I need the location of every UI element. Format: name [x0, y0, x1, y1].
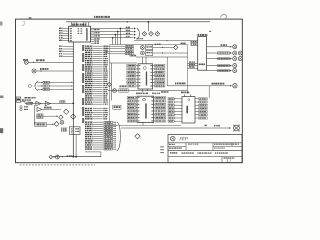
input connector pin K2 — [32, 68, 73, 73]
tick above U4 — [209, 31, 211, 32]
IC U1 right pin rows — [91, 29, 100, 44]
gate A2 — [45, 101, 50, 106]
IC U4 part number text — [199, 64, 205, 66]
optocoupler circle 1 — [141, 46, 145, 50]
diamond node D3 — [59, 115, 63, 119]
IC U2 top pins — [143, 57, 147, 64]
signal box row 4 — [35, 122, 54, 126]
diamond X2 — [149, 32, 154, 37]
input terminal box — [16, 97, 35, 104]
IC U3 right pin labels — [154, 97, 166, 123]
diamond before brace — [28, 84, 32, 88]
IC U2 right pin labels — [153, 64, 165, 87]
IC U3 body — [137, 96, 154, 122]
label box TR — [60, 101, 65, 104]
circle node bottom left — [60, 120, 64, 124]
IC U2 bottom pins — [143, 89, 148, 92]
connector P1 middle rows — [85, 108, 108, 120]
wire column bottom drop — [85, 151, 101, 153]
diamond X3 — [155, 32, 160, 37]
IC U1 top pins — [72, 22, 89, 27]
spare gate circles — [20, 106, 28, 111]
net label 17 4C 17 — [175, 83, 224, 85]
IC U2 body — [138, 64, 153, 89]
label above first bus wire — [126, 27, 130, 28]
wire net row with connector symbol — [108, 89, 188, 93]
diamond node D2 — [71, 114, 76, 119]
net label 2C2 — [120, 85, 127, 87]
optocoupler box 1 — [146, 45, 153, 50]
node gate row joins bus — [72, 103, 74, 105]
svg-text:1 /: 1 / — [226, 158, 232, 163]
optocoupler box 2 — [146, 51, 153, 56]
resistor array RN1 — [38, 81, 73, 90]
IC U4 lower left pins — [188, 62, 198, 69]
connector J2 right pin labels — [195, 98, 207, 119]
label CT8 — [181, 43, 186, 45]
IC U4 label above — [198, 34, 208, 36]
sheet border frame — [16, 19, 243, 163]
label box on inner vertical — [113, 105, 121, 109]
measuring point symbol — [233, 125, 240, 132]
wire rail to U2 — [136, 56, 188, 58]
input connector pin K1 — [23, 59, 73, 64]
IC U2 left pin labels — [127, 64, 138, 87]
brace after bus wires — [137, 28, 140, 40]
IC U1 body — [69, 26, 91, 42]
brace input group — [35, 81, 38, 91]
arrowhead on top rail — [126, 21, 128, 23]
filename text below border — [20, 164, 95, 166]
IC U1 left pins with labels — [59, 28, 69, 41]
node junction on top rail — [148, 21, 150, 31]
wire to test point TP8 — [167, 57, 232, 87]
optocoupler circle 2 — [141, 51, 145, 55]
IC U4 output wires with labels — [207, 44, 232, 72]
brace grouping lower rows — [117, 122, 121, 151]
enclosure inner line — [110, 62, 138, 64]
title block frame — [168, 135, 242, 163]
gate A1 — [36, 101, 41, 106]
node bus meets bottom wire — [72, 156, 74, 158]
test point TP4 circle — [233, 57, 237, 61]
connector P1 upper rows — [85, 46, 108, 105]
title block sheet cell — [224, 157, 235, 163]
test point TP6 circle — [233, 64, 237, 68]
wire vertical bus — [72, 42, 74, 157]
diamond at enclosure left edge — [107, 82, 111, 86]
test point TP8 circle — [233, 84, 237, 88]
IC U3 bottom pin — [142, 122, 144, 125]
diamond X1 — [142, 32, 147, 37]
test point TP7 circle — [233, 69, 237, 73]
diamond on opto wire — [174, 45, 178, 49]
gate A3 — [37, 107, 61, 112]
title block small texts — [169, 144, 239, 149]
IC U4 upper left pins — [191, 41, 198, 45]
wires joining enclosure — [105, 46, 110, 54]
net label 2C4 at rail — [130, 55, 136, 57]
IC U3 internal text — [138, 97, 153, 121]
diamond node D4 — [54, 122, 59, 127]
test point TP3 circle — [238, 51, 242, 55]
net label vertical AMBIT-1 — [82, 45, 84, 123]
IC U4 body — [198, 37, 207, 71]
IC U2 index mark — [143, 67, 146, 70]
IC U2 internal text — [139, 65, 152, 86]
IC U3 index mark — [143, 98, 146, 101]
IC U3 left pin labels — [127, 97, 137, 123]
company name FEP — [179, 136, 188, 141]
connector P1 lower rows with arrows — [85, 121, 116, 150]
revision marks left of title block — [160, 146, 164, 153]
test point TP1 circle — [233, 45, 237, 49]
output terminal diamond — [49, 155, 53, 159]
wire to U4 pin — [134, 38, 198, 42]
wire to measuring point — [121, 125, 231, 129]
scan artifact left edge — [0, 22, 4, 134]
bracket label — [61, 128, 67, 132]
test point TP5 circle — [238, 57, 242, 61]
connector J2 body — [181, 92, 195, 123]
wire gate row 1 — [21, 101, 74, 103]
wire terminals — [53, 155, 73, 157]
sheet zone label above border — [29, 16, 110, 19]
bus input labels below U1 — [59, 46, 73, 57]
company logo — [171, 136, 176, 141]
signal boxes row 3 — [37, 114, 58, 118]
bus wires to brace with junction drops — [91, 27, 136, 45]
wires in enclosure top strip — [110, 45, 133, 55]
wire top rail — [66, 21, 210, 23]
pen mark top right — [221, 14, 227, 18]
enclosure box around CPU section — [110, 45, 188, 126]
node symbol right of brace — [135, 134, 140, 139]
relay box K3 — [70, 127, 81, 135]
IC U1 label above — [72, 24, 86, 26]
text between U2 and U3 — [136, 93, 160, 95]
diamond node D1 — [64, 109, 69, 114]
IC U1 internal text — [70, 28, 88, 41]
resistor R1 — [22, 99, 32, 104]
wire relay to bottom — [75, 134, 77, 157]
wire opto 2 out — [153, 52, 188, 53]
wire enclosure inner vertical — [110, 63, 112, 101]
output terminal circle — [55, 155, 59, 159]
connector J2 left pin label column — [168, 98, 182, 123]
pen mark top left corner — [22, 21, 25, 26]
wire from TP8 net down to J2 — [208, 86, 210, 98]
wire bottom horizontal — [53, 152, 101, 157]
wire gate column — [33, 105, 35, 124]
test point TP2 circle — [233, 51, 237, 55]
title block message row — [170, 152, 228, 154]
wire opto 1 out — [153, 44, 174, 49]
svg-text:FEP: FEP — [179, 136, 188, 141]
